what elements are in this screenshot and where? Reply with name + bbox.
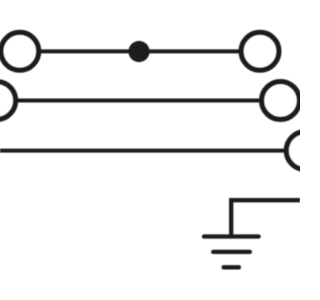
node junction dot on row 1 xyxy=(128,41,149,62)
terminal circle R3 (bottom-right connection point, clipped by right edge) xyxy=(286,132,320,170)
terminal circle L1 (top-left connection point) xyxy=(1,32,39,70)
wire (middle conductor, row 2) xyxy=(16,99,263,103)
terminal circle R1 (top-right connection point) xyxy=(241,32,279,70)
terminal circle L2 (middle-left connection point, clipped by left edge) xyxy=(0,82,16,120)
ground (earth symbol bar 2, middle) xyxy=(213,250,250,254)
wire (top conductor, row 1) xyxy=(39,49,242,53)
terminal circle R2 (middle-right connection point, clipped by right edge) xyxy=(262,82,300,120)
ground (earth symbol bar 3, shortest) xyxy=(224,265,239,269)
ground (earth symbol bar 1, longest) xyxy=(204,234,259,238)
wire (ground lead: from right edge, corner, down) xyxy=(231,200,300,236)
wire (bottom conductor, row 3) xyxy=(0,149,287,153)
